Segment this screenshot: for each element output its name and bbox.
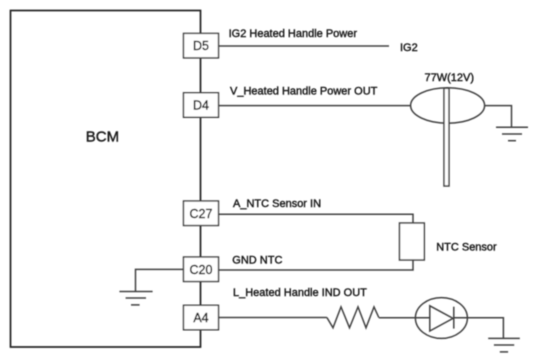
wire D4 to lamp (219, 105, 411, 107)
svg-text:L_Heated Handle IND OUT: L_Heated Handle IND OUT (233, 287, 367, 299)
LED diode triangle (430, 306, 453, 331)
resistor R (327, 307, 379, 328)
svg-text:BCM: BCM (86, 128, 119, 145)
svg-text:V_Heated Handle Power OUT: V_Heated Handle Power OUT (230, 85, 378, 97)
LED cathode bar (453, 307, 455, 329)
pin D4 (184, 93, 219, 118)
svg-text:GND NTC: GND NTC (232, 255, 282, 267)
svg-text:C20: C20 (190, 263, 213, 277)
svg-text:C27: C27 (190, 207, 213, 221)
svg-text:A_NTC Sensor IN: A_NTC Sensor IN (233, 198, 321, 210)
wire resistor to LED (379, 317, 430, 319)
svg-text:77W(12V): 77W(12V) (425, 72, 475, 84)
wire A4 to resistor (219, 317, 327, 319)
BCM box (11, 11, 201, 348)
pin D5 (184, 33, 219, 58)
LED ellipse (415, 298, 467, 339)
pin C20 (184, 257, 219, 282)
svg-text:IG2 Heated Handle Power: IG2 Heated Handle Power (229, 28, 358, 40)
wire C27 to NTC sensor (219, 214, 414, 223)
svg-text:D5: D5 (193, 39, 209, 53)
heater element bar (444, 88, 449, 186)
pin A4 (184, 305, 219, 330)
wire LED to ground (454, 318, 504, 339)
ground G3 (LED) (488, 338, 520, 352)
ground G1 (lamp) (496, 127, 528, 140)
wire C20 to ground (136, 269, 184, 291)
lamp ellipse 77W(12V) (411, 88, 485, 123)
NTC Sensor body (400, 223, 425, 260)
svg-text:NTC Sensor: NTC Sensor (436, 242, 497, 254)
svg-text:A4: A4 (193, 311, 208, 325)
wire NTC sensor to C20 (219, 260, 414, 270)
svg-text:D4: D4 (193, 99, 209, 113)
svg-text:IG2: IG2 (400, 42, 418, 54)
wire lamp to ground (485, 106, 512, 128)
ground G2 (C20) (119, 292, 152, 305)
wire D5 to IG2 (219, 45, 390, 47)
pin C27 (184, 201, 219, 226)
